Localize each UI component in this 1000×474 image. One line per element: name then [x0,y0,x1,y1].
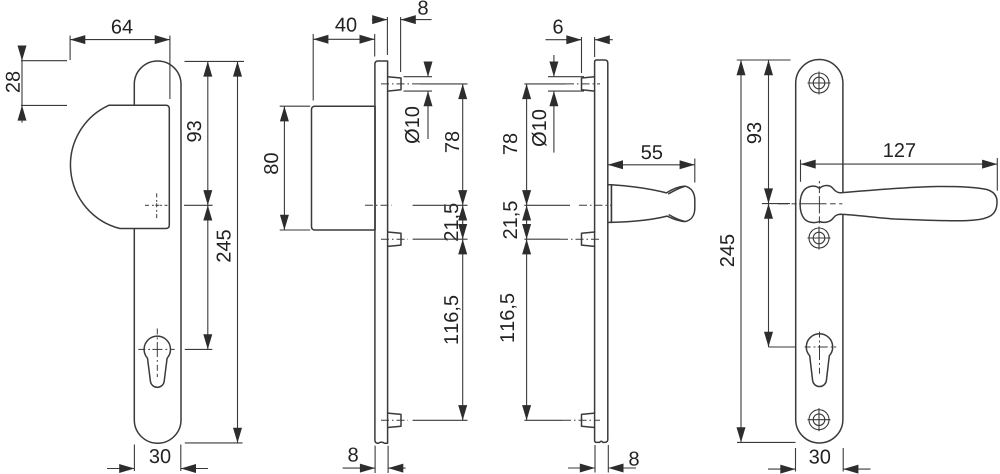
screw hole top fig4 [808,72,831,95]
dimension 64 extension lines [69,36,71,61]
backplate fig2 [375,61,388,443]
fixing peg bottom fig2 [388,413,401,427]
peg bottom centerline fig2 [381,419,408,421]
euro cylinder keyhole fig4 [806,334,832,387]
extension line cylinder fig4 [769,346,796,348]
extension line spindle fig4 [762,203,790,205]
extension line top fig1 [185,60,245,62]
dimension 78 fig2 line [462,84,464,205]
spindle centerline fig3 [579,204,612,206]
spindle centerline horizontal fig1 [145,204,149,206]
keyhole centerline horizontal fig4 [805,346,811,348]
unlabelled 92 dimension fig1 line [207,205,209,349]
dimension 245 fig1 line [237,61,239,443]
knob fig1 front view [70,105,169,228]
extension line top fig4 [737,59,791,61]
diameter 10 fig2 extension lines [404,76,433,78]
dimension 116,5 fig3 text [500,294,517,342]
dimension 28 line and arrows [21,47,23,123]
dimension 30 fig4 text [809,450,830,464]
dimension 6 extension lines [581,37,583,73]
dimension 127 extension lines [800,160,802,182]
spindle centerline horizontal fig4 [778,203,788,205]
extension lines chain dims fig3 [524,83,566,85]
dimension 6 text [554,20,563,34]
dimension 78 fig3 line [526,84,528,205]
dimension 55 extension line [694,159,696,183]
dimension 116,5 fig2 line [462,239,464,420]
diameter 10 fig3 extension lines [548,76,584,78]
extension line bottom fig4 [737,441,796,443]
knob fig2 side view [312,106,376,230]
screw hole bottom fig4 [808,408,831,431]
fixing peg top fig3 [582,77,595,91]
dimension 28 extension lines [21,60,67,62]
unlabelled 92 dimension fig4 line [768,204,770,347]
peg middle centerline fig3 [560,238,600,240]
dimension 21,5 fig2 text [444,204,461,241]
dimension 40 line [313,38,375,40]
dimension 78 fig3 text [503,134,517,154]
fixing peg middle fig3 [582,232,595,246]
dimension 21,5 fig2 line [462,205,464,239]
dimension 55 line [608,164,695,166]
extension lines chain dims fig2 [420,83,468,85]
dimension 8 bottom fig2 text [348,448,357,462]
dimension 93 fig1 line [207,61,209,205]
lever handle hub fig4 [800,186,997,223]
dimension 93 fig4 text [747,123,761,143]
dimension 127 line [801,163,998,165]
dimension 30 fig1 text [150,449,171,463]
spindle centerline fig2 [365,204,392,206]
peg top centerline fig2 [381,83,420,85]
fixing peg top fig2 [388,77,401,91]
keyhole centerline horizontal fig1 [138,348,145,350]
backplate fig3 [595,60,608,442]
dimension 30 fig4 extension lines [795,448,797,472]
dimension 78 fig2 text [445,132,459,152]
lever end top crescent fig3 [669,187,685,194]
dimension 8 fig3 line and arrows [568,467,595,469]
backplate fig4 [796,60,843,444]
dimension 8 top fig2 extension lines [386,17,388,55]
diameter 10 fig3 text [532,110,547,146]
lever handle neck fig3 [608,185,612,223]
diameter 10 fig3 dimension [553,55,555,77]
peg top centerline fig3 [566,83,600,85]
dimension 55 text [642,145,663,159]
dimension 8 top fig2 text [418,1,427,15]
dimension 93 fig4 line [768,60,770,204]
dimension 127 text [884,143,915,157]
fixing peg bottom fig3 [582,413,595,427]
peg middle centerline fig2 [381,238,408,240]
extension line cylinder fig1 [185,348,213,350]
dimension 116,5 fig3 line [526,239,528,420]
dimension 8 bottom fig2 line and arrows [343,467,376,469]
dimension 80 text [264,153,278,174]
dimension 93 fig1 text [187,121,201,141]
spindle centerline vertical fig1 [156,193,158,197]
lever end bottom crescent fig3 [669,215,684,221]
extension line spindle fig1 [184,204,213,206]
dimension 28 text [6,72,20,92]
dimension 21,5 fig3 line [526,205,528,239]
lever handle end view fig3 [612,185,695,223]
diameter 10 fig2 text [405,107,420,143]
diameter 10 fig2 dimension [427,62,429,77]
dimension 8 fig3 extension lines [594,445,596,473]
spindle centerline vertical fig4 [818,181,820,183]
backplate fig1 [134,61,181,443]
dimension 116,5 fig2 text [444,296,461,344]
dimension 40 extension lines [312,34,314,101]
keyhole centerline vertical fig4 [819,332,821,338]
dimension 245 fig4 line [740,60,742,442]
dimension 8 top fig2 line and arrows [372,19,388,21]
extension line bottom fig1 [185,442,243,444]
screw hole middle fig4 [808,227,831,250]
dimension 30 fig1 extension lines [133,445,135,472]
fixing peg middle fig2 [388,232,401,246]
dimension 40 text [335,18,356,32]
dimension 80 extension lines [280,105,311,107]
dimension 21,5 fig3 text [503,201,520,238]
dimension 8 bottom fig2 extension lines [374,446,376,473]
keyhole centerline vertical fig1 [156,329,158,335]
peg bottom centerline fig3 [563,419,600,421]
dimension 64 text [112,20,133,34]
euro cylinder keyhole fig1 [144,336,170,387]
dimension 30 fig4 line and arrows [768,468,796,470]
dimension 6 line and arrows [546,39,582,41]
dimension 30 fig1 line and arrows [107,468,134,470]
dimension 80 line [283,106,285,230]
dimension 64 line [70,39,170,41]
dimension 245 fig1 text [217,230,231,262]
dimension 8 fig3 text [629,452,638,466]
dimension 245 fig4 text [720,235,734,267]
